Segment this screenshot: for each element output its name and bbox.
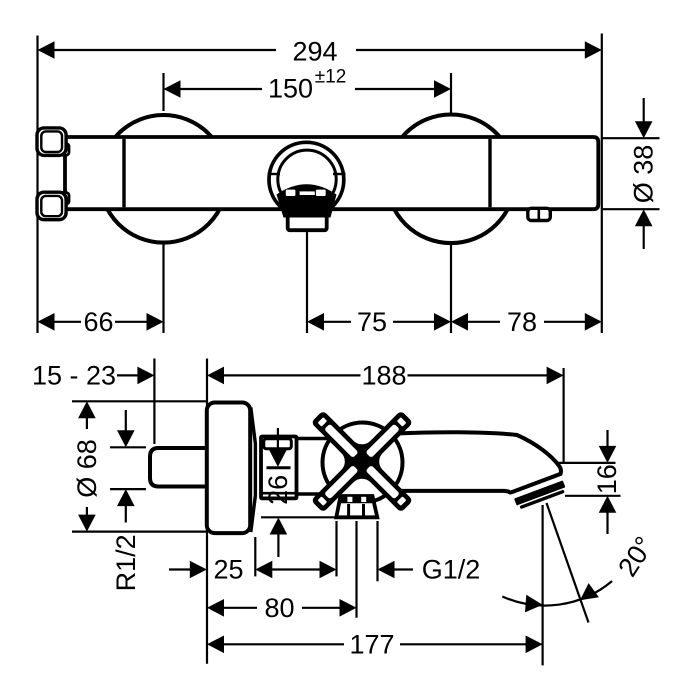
extension line left mount center lower (66) — [162, 244, 164, 333]
dimension 75 — [324, 321, 351, 323]
handle hub (black base) — [277, 184, 337, 217]
ext line bar bottom — [602, 208, 660, 210]
S-connector bottom — [60, 193, 70, 205]
dimension 16 — [606, 430, 608, 447]
ext line spout end (188) — [562, 368, 564, 464]
valve housing lines — [295, 437, 332, 440]
safety clip tab — [528, 208, 551, 220]
svg-text:±12: ±12 — [315, 67, 347, 88]
escutcheon disc (side view) — [207, 403, 250, 534]
svg-text:177: 177 — [349, 629, 394, 659]
valve body circle (side view) — [323, 423, 403, 503]
handle stem box — [288, 216, 327, 231]
ext line nipple bottom (R1/2) — [110, 488, 146, 490]
ext line outlet top (16) — [524, 462, 616, 464]
body joint line left — [122, 139, 125, 207]
arc arrow at slant — [580, 583, 599, 600]
svg-text:75: 75 — [357, 307, 387, 337]
ext line valve start (25) — [254, 537, 256, 576]
extension line right end (294/78) — [601, 34, 603, 334]
escutcheon back cone — [251, 408, 256, 533]
svg-text:Ø 38: Ø 38 — [629, 145, 659, 204]
dimension 188 — [207, 367, 224, 385]
mixer body bar (front view) — [65, 137, 598, 209]
svg-text:25: 25 — [213, 555, 243, 585]
wall nipple R1/2 — [150, 448, 207, 487]
dimension 25 — [169, 568, 190, 570]
ext line spout bottom plane (26) — [261, 516, 336, 518]
left escutcheon circle (front view) — [100, 115, 228, 243]
svg-text:Ø 68: Ø 68 — [72, 439, 102, 498]
20 deg slant line — [547, 503, 589, 623]
dimension 150 plus/minus 12 — [180, 88, 262, 90]
cross handle — [275, 375, 449, 549]
ext line bar top — [602, 137, 660, 139]
svg-text:26: 26 — [263, 475, 293, 505]
spout outlet aerator — [513, 477, 567, 510]
extension line left wall (294/66) — [36, 36, 38, 334]
ext line escutcheon bottom (d68) — [72, 530, 207, 532]
extension line handle center (75) — [306, 236, 308, 333]
check-valve connector — [261, 437, 297, 499]
ext line wall plane — [153, 359, 155, 445]
ext line outlet bottom (16) — [565, 495, 621, 497]
clip divider — [537, 210, 540, 220]
svg-text:66: 66 — [83, 307, 113, 337]
handle ring inner circle — [278, 150, 336, 208]
spindle line (26 ref) — [267, 466, 291, 469]
dimension 80 — [207, 599, 224, 617]
right escutcheon circle (front view) — [387, 115, 516, 244]
svg-text:150: 150 — [268, 74, 313, 104]
ext line nipple top (R1/2) — [110, 446, 146, 448]
dimension 294 — [54, 49, 276, 51]
extension line right mount center lower (75/78) — [450, 244, 452, 333]
ext line escutcheon top (d68) — [72, 400, 207, 402]
ext line handle centerline (80) — [355, 521, 357, 618]
dimension 66 — [54, 321, 81, 323]
extension line right mount center upper (150) — [450, 73, 452, 115]
label R1/2 — [125, 410, 127, 431]
svg-text:78: 78 — [507, 307, 537, 337]
svg-text:294: 294 — [292, 37, 337, 67]
label G1/2 — [378, 561, 395, 579]
dimension 26 — [277, 428, 279, 451]
arc arrow at vertical — [525, 595, 543, 613]
ring right parting tick — [333, 173, 346, 175]
body joint line right — [488, 139, 491, 207]
ext line G1/2 left — [335, 521, 337, 576]
S-connector top — [60, 144, 70, 156]
ext line escutcheon face — [206, 359, 208, 664]
dimension 177 — [207, 636, 224, 654]
handle ring outer circle — [269, 142, 344, 217]
svg-text:188: 188 — [361, 360, 406, 390]
svg-text:G1/2: G1/2 — [422, 555, 481, 585]
ext line G1/2 right — [376, 521, 378, 581]
union nut G1/2 — [336, 496, 377, 517]
svg-text:R1/2: R1/2 — [111, 534, 141, 591]
ring left parting tick — [268, 173, 281, 175]
dimension diameter 68 — [78, 401, 96, 418]
dimension 78 — [468, 321, 500, 323]
extension line left mount center upper (150) — [162, 73, 164, 111]
svg-text:80: 80 — [264, 593, 294, 623]
svg-text:15 - 23: 15 - 23 — [32, 360, 116, 390]
svg-text:16: 16 — [592, 464, 622, 494]
vertical reference line at outlet (177/20deg) — [541, 505, 543, 665]
spout — [390, 432, 561, 492]
